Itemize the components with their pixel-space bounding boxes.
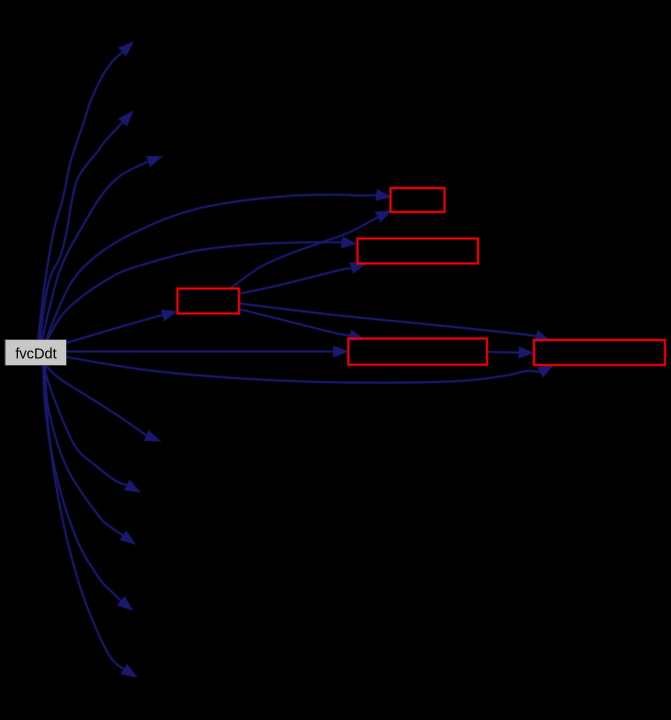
- svg-text:fvcDdt: fvcDdt: [15, 346, 56, 362]
